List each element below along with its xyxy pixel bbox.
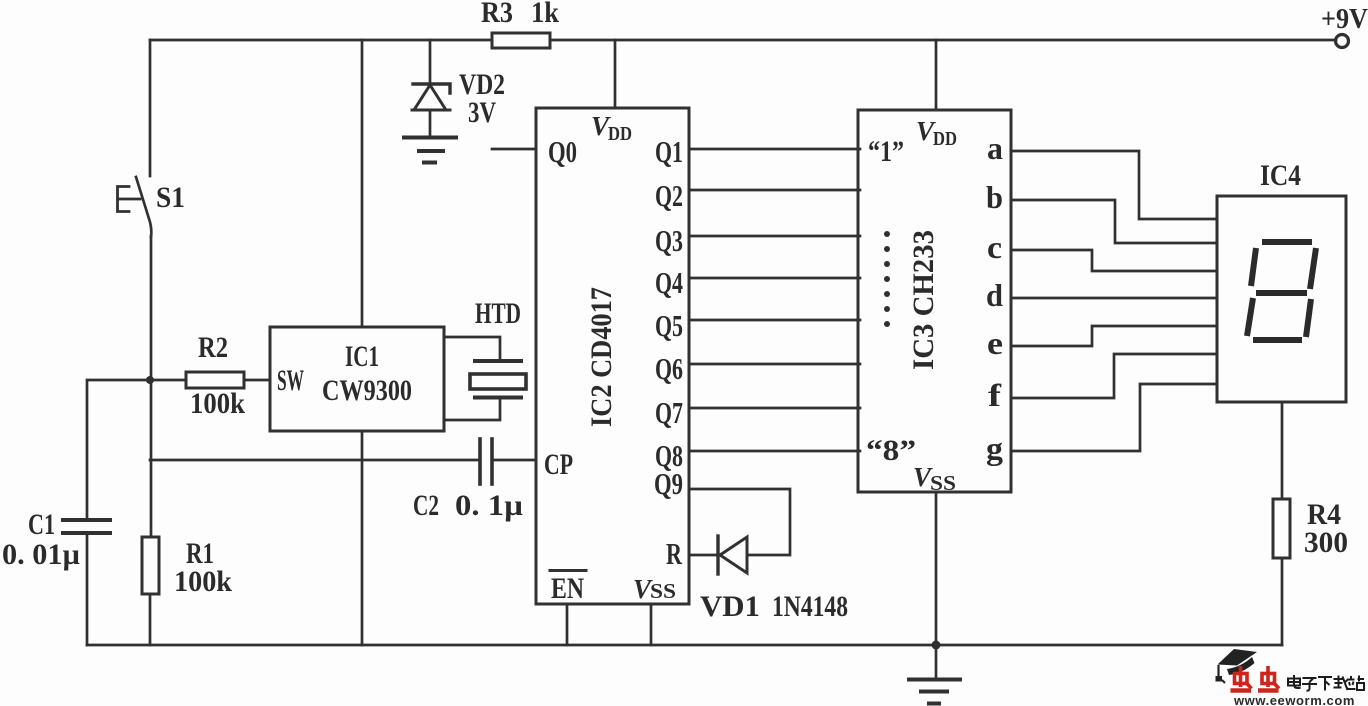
- IC U1: IC1 CW9300: [270, 327, 444, 431]
- IC U3: IC3 CH233: [858, 110, 1011, 492]
- wire d to IC4: [1011, 297, 1217, 300]
- svg-text:www.eeworm.com: www.eeworm.com: [1233, 693, 1356, 706]
- svg-text:c: c: [987, 229, 1002, 265]
- resistor R4: [1273, 499, 1290, 558]
- 7-segment digit 8: [1247, 242, 1316, 340]
- svg-text:0. 1µ: 0. 1µ: [455, 489, 523, 522]
- ground (below VD2): [404, 136, 456, 140]
- capacitor C1: [63, 518, 110, 522]
- watermark logo: graduation cap: [1216, 649, 1258, 683]
- wire: IC1 bottom stem: [361, 431, 364, 645]
- svg-text:Q5: Q5: [655, 308, 683, 343]
- svg-text:IC1: IC1: [345, 340, 379, 373]
- wire: left rail upper: [149, 40, 152, 176]
- wire: IC3 VDD stem: [935, 40, 938, 110]
- wire: EN stub: [566, 604, 569, 645]
- wire: top power bus +9V: [150, 39, 1336, 42]
- svg-text:100k: 100k: [174, 565, 232, 598]
- resistor R3: [492, 33, 550, 48]
- wire b to IC4: [1011, 200, 1217, 243]
- svg-text:EN: EN: [551, 572, 584, 605]
- wire Q6 to IC3: [689, 363, 860, 366]
- svg-text:C1: C1: [28, 508, 55, 541]
- svg-text:100k: 100k: [190, 387, 245, 420]
- svg-text:Q1: Q1: [655, 134, 683, 169]
- wire: CP line: [150, 459, 480, 462]
- svg-text:Q4: Q4: [655, 265, 683, 300]
- wire: IC3 VSS stem: [935, 492, 938, 645]
- wire: VD2 stem from bus: [429, 40, 432, 84]
- svg-text:C2: C2: [413, 489, 439, 522]
- svg-text:300: 300: [1304, 526, 1348, 559]
- wire Q4 to IC3: [689, 277, 860, 280]
- svg-text:Q6: Q6: [655, 351, 683, 386]
- wire Q8 to IC3: [689, 450, 860, 453]
- svg-text:CP: CP: [544, 448, 573, 481]
- wire: junction to R2: [150, 379, 186, 382]
- wire Q5 to IC3: [689, 319, 860, 322]
- svg-text:R3: R3: [481, 0, 513, 29]
- wire Q3 to IC3: [689, 235, 860, 238]
- svg-text:VD1: VD1: [700, 590, 760, 623]
- wire g to IC4: [1011, 384, 1217, 451]
- decorative dots column: [884, 231, 890, 327]
- ground (main): [935, 645, 938, 679]
- diode VD1: [716, 536, 719, 574]
- wire: R pin to diode: [689, 554, 718, 557]
- svg-text:a: a: [987, 130, 1003, 166]
- wire c to IC4: [1011, 250, 1217, 271]
- IC U2: IC2 CD4017: [536, 108, 689, 604]
- svg-text:“8”: “8”: [866, 434, 916, 467]
- svg-text:IC2 CD4017: IC2 CD4017: [585, 287, 618, 427]
- svg-text:3V: 3V: [468, 96, 496, 129]
- svg-text:d: d: [986, 277, 1003, 313]
- svg-text:f: f: [988, 377, 1001, 413]
- svg-text:CW9300: CW9300: [322, 374, 412, 407]
- terminal +9V: [1336, 35, 1349, 48]
- pin Q0 stub: [492, 148, 536, 151]
- svg-text:0. 01µ: 0. 01µ: [2, 538, 80, 571]
- wire: IC2 VDD stem: [614, 40, 617, 108]
- svg-text:Q7: Q7: [655, 395, 683, 430]
- watermark text: dianzi xiazaizhan (black glyphs): [1288, 675, 1364, 691]
- svg-text:Q0: Q0: [548, 134, 577, 169]
- svg-text:Q9: Q9: [654, 466, 683, 501]
- wire: Q9 loop to diode: [689, 489, 790, 555]
- wire: IC4 to R4: [1281, 402, 1284, 499]
- svg-text:IC4: IC4: [1260, 159, 1301, 192]
- svg-text:Q2: Q2: [655, 178, 683, 213]
- wire Q7 to IC3: [689, 407, 860, 410]
- wire Q2 to IC3: [689, 189, 860, 192]
- switch S1: [136, 177, 151, 237]
- svg-text:DD: DD: [608, 123, 632, 145]
- svg-text:S1: S1: [156, 181, 185, 214]
- wire: IC1 top stem: [361, 40, 364, 327]
- wire Q1 to IC3: [689, 148, 860, 151]
- svg-text:1N4148: 1N4148: [772, 590, 848, 623]
- svg-text:R: R: [666, 536, 682, 571]
- resistor R2: [186, 372, 244, 388]
- svg-text:“1”: “1”: [868, 135, 904, 168]
- svg-text:1k: 1k: [531, 0, 559, 29]
- wire: VSS stub: [650, 604, 653, 645]
- resistor R1: [142, 537, 159, 594]
- node: ground junction: [932, 641, 941, 650]
- pin EN label (with overline): [550, 569, 586, 572]
- wire: junction to C1: [87, 380, 150, 520]
- wire: bottom ground bus: [87, 644, 1282, 647]
- wire a to IC4: [1011, 151, 1217, 219]
- svg-text:IC3 CH233: IC3 CH233: [907, 230, 940, 370]
- svg-text:R2: R2: [198, 331, 228, 364]
- svg-text:g: g: [986, 430, 1003, 466]
- svg-text:SW: SW: [277, 364, 304, 397]
- IC U4: IC4 7-segment display: [1217, 196, 1346, 402]
- zener diode VD2: [413, 84, 450, 93]
- svg-text:b: b: [986, 179, 1003, 215]
- piezo sounder HTD: [444, 337, 500, 361]
- wire f to IC4: [1011, 354, 1217, 398]
- wire e to IC4: [1011, 326, 1217, 346]
- node: R2/C1/CP junction: [146, 376, 154, 384]
- wire: left rail lower: [150, 237, 153, 537]
- svg-text:SS: SS: [650, 579, 676, 603]
- svg-text:HTD: HTD: [475, 297, 521, 330]
- svg-text:e: e: [987, 325, 1003, 361]
- capacitor C2: [478, 439, 482, 484]
- svg-text:Q3: Q3: [655, 223, 683, 258]
- watermark text: chongchong (red): [1231, 666, 1280, 691]
- svg-text:SS: SS: [930, 471, 956, 495]
- svg-text:DD: DD: [933, 128, 957, 150]
- svg-text:+9V: +9V: [1321, 3, 1368, 35]
